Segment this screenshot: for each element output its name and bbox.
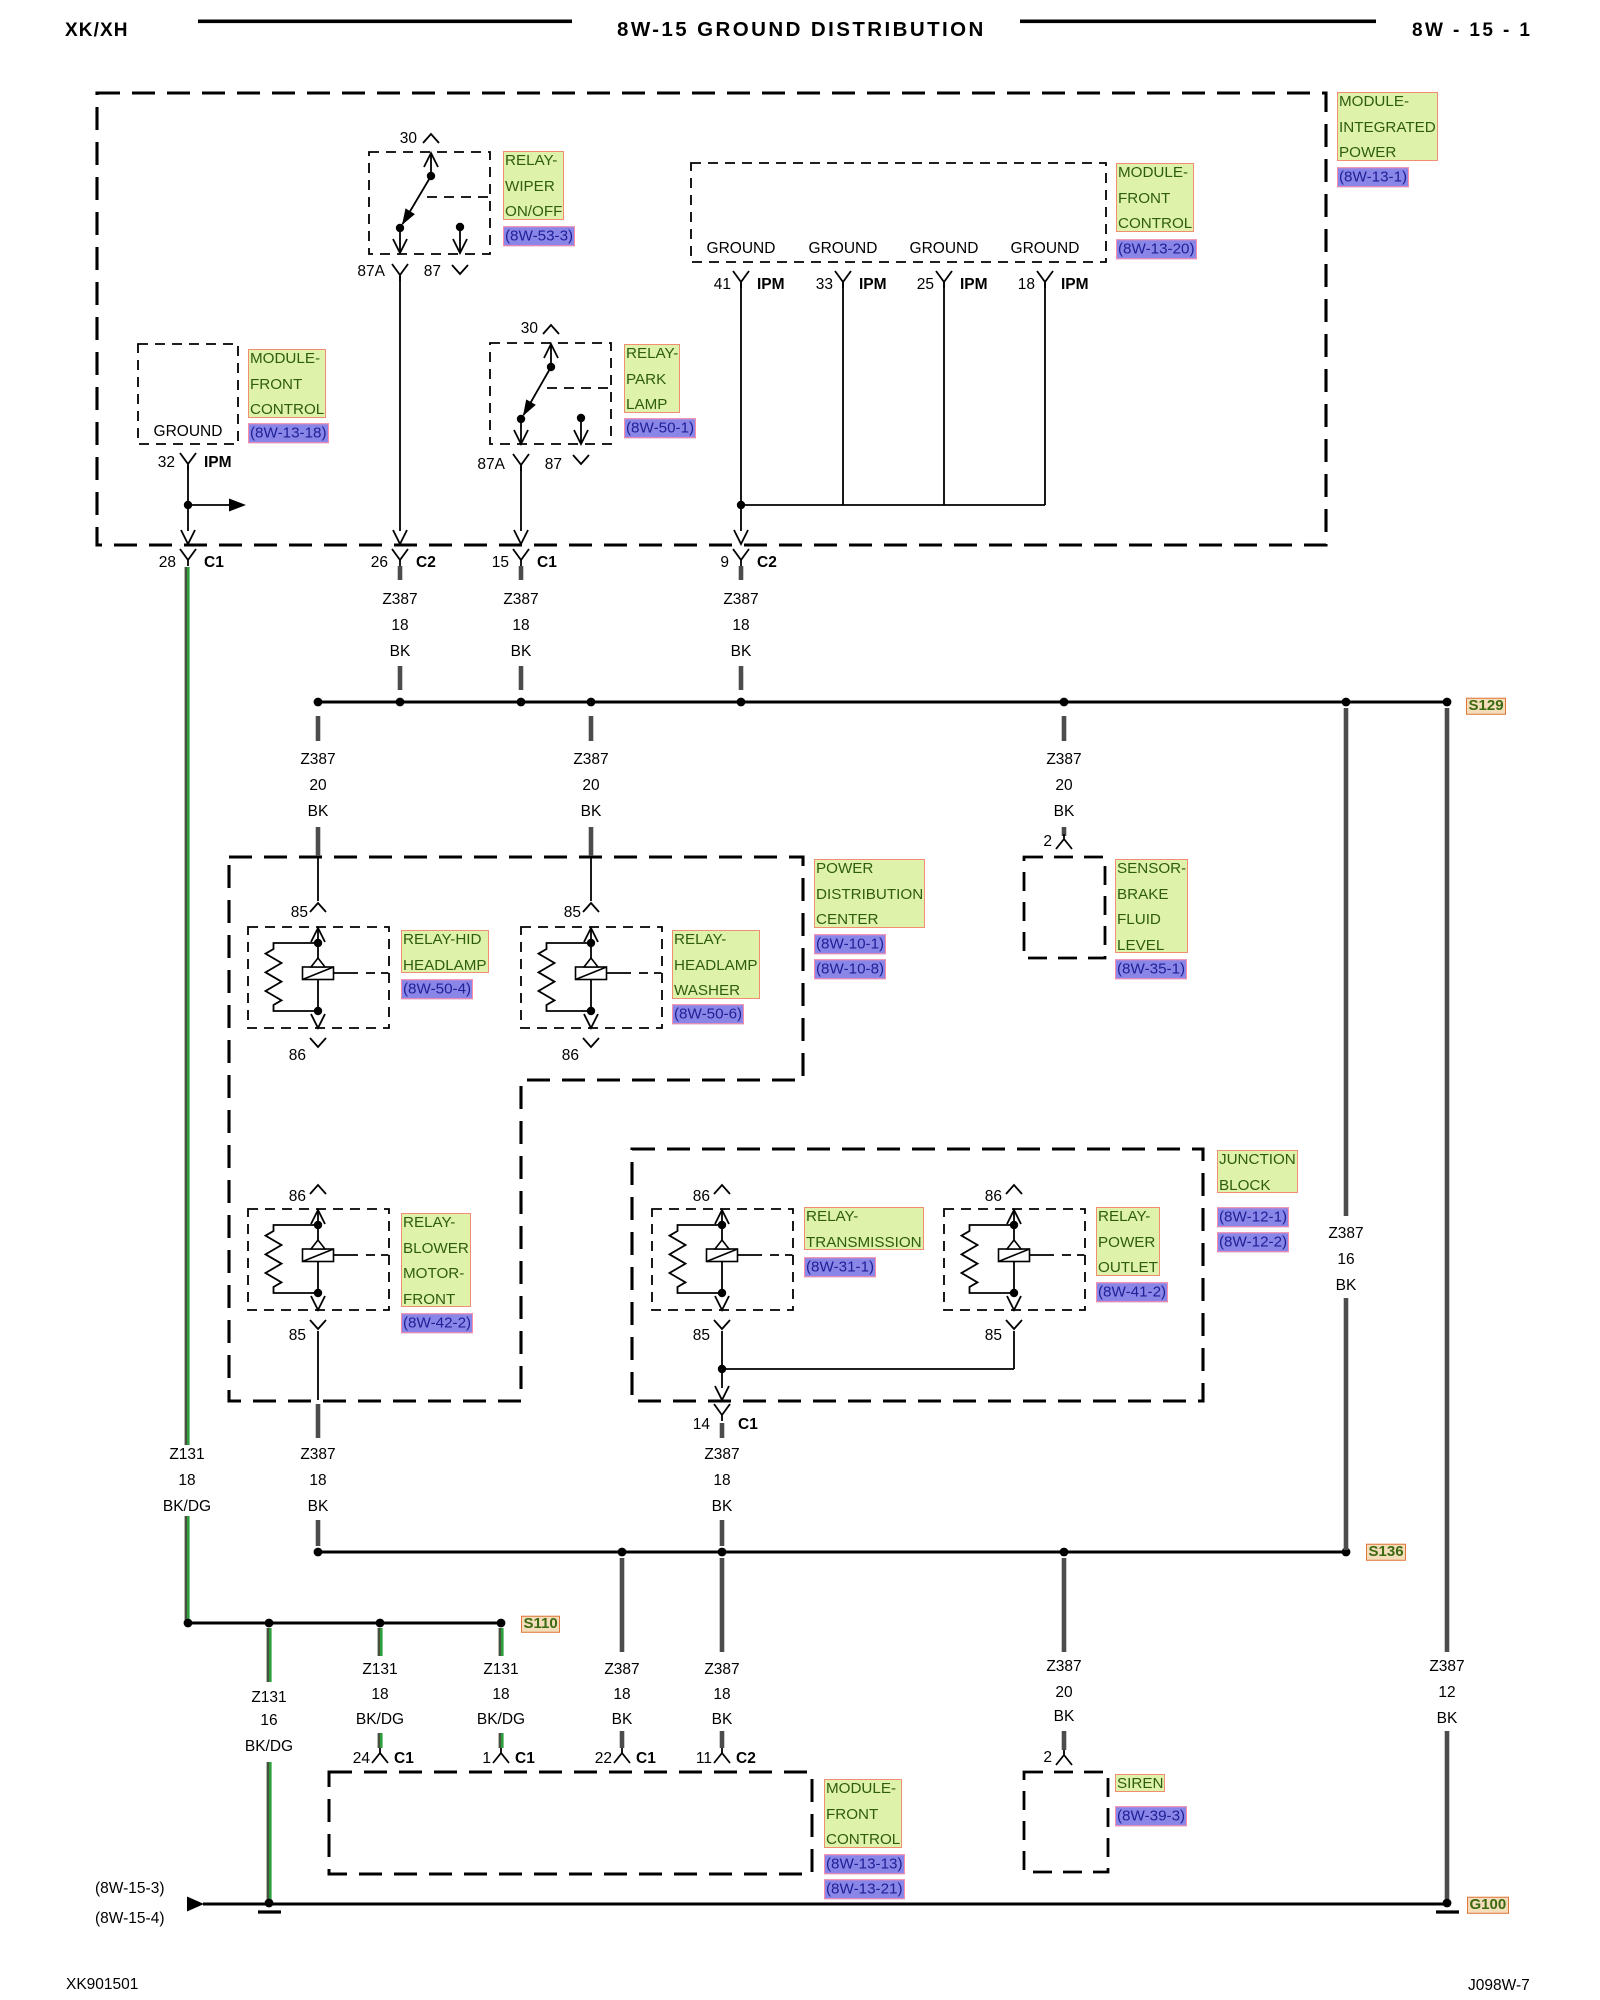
module-integrated power outer dashed box <box>97 93 1326 545</box>
header title <box>617 18 986 42</box>
pin 85 label (blower) <box>289 1327 306 1345</box>
wire label Z387 18 BK x722 <box>704 1446 739 1464</box>
reference 8W-12-1 <box>1217 1207 1289 1227</box>
wire stub x318 to PDC <box>316 827 321 856</box>
module-front control 8W-13-18 dashed box <box>138 344 238 444</box>
wire label Z387 20 BK x=318 <box>300 751 335 769</box>
connector C1 label (22) <box>636 1750 656 1768</box>
relay coil internals <box>311 928 325 942</box>
wire below S136 x1064 <box>1062 1558 1067 1652</box>
pin 41 label <box>714 276 731 294</box>
junction dot S129 x=1447 <box>1443 698 1452 707</box>
relay-transmission dashed box <box>652 1209 793 1310</box>
branch wire to right with arrow <box>188 504 230 506</box>
connector C2 label <box>416 554 436 572</box>
pin 87 label (park) <box>545 456 562 474</box>
pin 22 label <box>595 1750 612 1768</box>
connector 9 C2 <box>733 549 741 560</box>
sensor-brake fluid level dashed box <box>1024 857 1105 958</box>
relay coil internals <box>715 1210 729 1224</box>
label module-front control 18 <box>248 349 326 418</box>
wire Z387 12 BK lower segment <box>1445 1731 1450 1899</box>
wire Z131 18 BK/DG lower segment <box>185 1516 187 1621</box>
IPM label (18) <box>1061 276 1089 294</box>
wire power outlet 85 down <box>1013 1331 1015 1369</box>
wire pin32 down to C1 exit <box>187 466 189 531</box>
junction dot S129 x=591 <box>587 698 596 707</box>
GROUND text (8W-13-18) <box>154 423 223 441</box>
wire to 14 C1 exit <box>721 1369 723 1388</box>
pin 85 chevron (transmission) <box>714 1320 730 1329</box>
pin 33 label <box>816 276 833 294</box>
pin 9 label <box>720 554 729 572</box>
splice label S129 <box>1466 698 1506 715</box>
wire stub x591 to PDC <box>589 827 594 856</box>
header rule right <box>1020 20 1376 24</box>
ground line to G100 <box>203 1903 1447 1906</box>
ground bar x269 <box>258 1910 281 1913</box>
wire Z387 12 BK upper segment <box>1445 708 1450 1652</box>
label module-front control 13 <box>824 1779 902 1848</box>
pin 2 connector (sensor) <box>1063 834 1065 840</box>
wire label Z387 18 BK x=400 <box>382 591 417 609</box>
reference 8W-13-18 <box>248 423 329 443</box>
wire Z131 16 BK/DG upper <box>267 1628 269 1682</box>
connector C2 label (11) <box>736 1750 756 1768</box>
wire below S136 x622 <box>620 1558 625 1652</box>
pin 85 chevron (washer) <box>583 903 599 912</box>
reference 8W-10-1 <box>814 934 886 954</box>
pin 24 label <box>353 1750 370 1768</box>
wire ground 25 down <box>943 283 945 505</box>
connector 14 C1 <box>714 1404 722 1415</box>
wire label Z387 18 BK x=741 <box>723 591 758 609</box>
off-page arrow to 8W-15-3/4 <box>187 1897 204 1912</box>
pin 87A connector (park) <box>513 454 521 465</box>
module-front control 8W-13-13 dashed box <box>329 1772 812 1874</box>
reference 8W-31-1 <box>804 1257 876 1277</box>
pin 11 label <box>696 1750 712 1768</box>
pin 85 label (hid) <box>291 904 308 922</box>
footer drawing number <box>66 1976 138 1994</box>
IPM label (32) <box>204 454 232 472</box>
pin 86 label (washer) <box>562 1047 579 1065</box>
wire ground 41 down to C2 exit <box>740 283 742 531</box>
pin 30 connector chevron (park) <box>543 325 559 334</box>
pin 28 label <box>159 554 176 572</box>
wire label Z131 18 BK/DG x501 <box>483 1661 518 1679</box>
wire transmission 85 down <box>721 1331 723 1369</box>
label relay-blower motor-front <box>401 1213 471 1307</box>
splice label S110 <box>521 1616 560 1633</box>
pin 30 label (park) <box>521 320 538 338</box>
label sensor-brake fluid level <box>1115 859 1188 953</box>
reference 8W-10-8 <box>814 959 886 979</box>
wire stub x1064 to sensor <box>1062 827 1067 836</box>
splice S129 bus <box>318 701 1447 704</box>
GROUND text pin 41 <box>707 240 776 258</box>
relay coil internals <box>584 928 598 942</box>
connector C1 label <box>537 554 557 572</box>
header XK/XH <box>65 20 129 42</box>
wire label Z131 18 BK/DG x380 <box>362 1661 397 1679</box>
pin 87A connector (wiper) <box>392 264 400 275</box>
label relay-headlamp washer <box>672 930 760 999</box>
junction dot S129 x=318 <box>314 698 323 707</box>
pin 15 label <box>492 554 509 572</box>
reference 8W-50-6 <box>672 1004 744 1024</box>
label siren <box>1115 1774 1165 1792</box>
siren dashed box <box>1024 1772 1108 1872</box>
reference 8W-13-13 <box>824 1854 905 1874</box>
pin 87 label (wiper) <box>424 263 441 281</box>
reference 8W-13-1 <box>1337 167 1409 187</box>
wire stub below S129 x1064 <box>1062 716 1067 741</box>
pin 18 label <box>1018 276 1035 294</box>
wire label Z387 12 BK x1447 <box>1429 1658 1464 1676</box>
wire label Z131 18 BK/DG x187 <box>169 1446 204 1464</box>
ground pin 33 IPM connector <box>835 271 843 282</box>
relay coil-switch internals <box>424 153 438 167</box>
IPM label (25) <box>960 276 988 294</box>
relay-blower motor-front dashed box <box>248 1209 389 1310</box>
header rule left <box>198 20 572 24</box>
junction dot S129 x=521 <box>517 698 526 707</box>
junction dot S136 x=1346 <box>1342 1548 1351 1557</box>
wire Z131 x380 upper stub <box>378 1628 380 1656</box>
junction dot S110 x=188 <box>184 1619 193 1628</box>
reference 8W-53-3 <box>503 226 575 246</box>
IPM label (41) <box>757 276 785 294</box>
wire label Z387 18 BK x=521 <box>503 591 538 609</box>
pin 25 label <box>917 276 934 294</box>
reference 8W-13-21 <box>824 1879 905 1899</box>
connector 28 C1 <box>180 549 188 560</box>
connector C1 label (24) <box>394 1750 414 1768</box>
connector C1 label <box>204 554 224 572</box>
label module-integrated power <box>1337 92 1438 161</box>
relay-headlamp washer dashed box <box>521 927 662 1028</box>
relay coil internals <box>311 1210 325 1224</box>
pin 32 label <box>158 454 175 472</box>
wire stub above S129 at x741 <box>739 666 744 690</box>
wire stub below 14 C1 <box>720 1423 725 1438</box>
wire label Z387 20 BK x=1064 <box>1046 751 1081 769</box>
wire ground 18 down <box>1044 283 1046 505</box>
wire Z131 x380 lower stub <box>378 1733 380 1748</box>
wire stub above 11 C2 <box>720 1731 725 1748</box>
label relay-transmission <box>804 1207 924 1250</box>
wire Z131 18 BK/DG from 28 C1 <box>185 567 187 1445</box>
label relay-hid headlamp <box>401 930 489 973</box>
relay-wiper on/off dashed box <box>369 152 490 254</box>
pin 87A label (wiper) <box>357 263 385 281</box>
connector 22 C1 <box>621 1748 623 1754</box>
pin 86 chevron (hid) <box>310 1038 326 1047</box>
reference 8W-41-2 <box>1096 1282 1168 1302</box>
wire Z387 16 BK upper segment <box>1344 708 1349 1216</box>
label relay-wiper on/off <box>503 151 564 220</box>
wire into relay-hid headlamp <box>317 857 319 901</box>
ground pin 18 IPM connector <box>1037 271 1045 282</box>
wire stub 15 C1 <box>519 566 524 580</box>
wire stub above S136 x722 <box>720 1520 725 1546</box>
wire stub above S129 at x521 <box>519 666 524 690</box>
reference 8W-12-2 <box>1217 1232 1289 1252</box>
junction dot S129 x=400 <box>396 698 405 707</box>
pin 86 label (blower) <box>289 1188 306 1206</box>
reference 8W-50-1 <box>624 418 696 438</box>
junction dot S110 x=501 <box>497 1619 506 1628</box>
GROUND text pin 18 <box>1011 240 1080 258</box>
junction dot S129 x=741 <box>737 698 746 707</box>
wire Z131 x501 upper stub <box>499 1628 501 1656</box>
wire stub 9 C2 <box>739 566 744 580</box>
pin 87A label (park) <box>477 456 505 474</box>
pin 85 label (transmission) <box>693 1327 710 1345</box>
wire label Z387 16 BK x1346 <box>1328 1225 1363 1243</box>
wire stub 26 C2 <box>398 566 403 580</box>
wire Z387 16 BK lower segment <box>1344 1298 1349 1550</box>
connector C2 label <box>757 554 777 572</box>
junction dot S129 x=1064 <box>1060 698 1069 707</box>
connector 24 C1 <box>379 1748 381 1754</box>
pin 87 connector chevron (park) <box>573 455 589 464</box>
reference 8W-42-2 <box>401 1313 473 1333</box>
relay coil internals <box>1007 1210 1021 1224</box>
pin 85 label (power outlet) <box>985 1327 1002 1345</box>
wire 87A to C2 exit <box>399 276 401 531</box>
connector C1 label (1) <box>515 1750 535 1768</box>
pin 86 chevron (washer) <box>583 1038 599 1047</box>
ground pin 41 IPM connector <box>733 271 741 282</box>
pin 85 chevron (hid) <box>310 903 326 912</box>
splice S136 bus <box>318 1551 1346 1554</box>
pin 86 chevron (power outlet) <box>1006 1185 1022 1194</box>
junction dot S110 x=269 <box>265 1619 274 1628</box>
pin 86 chevron (blower) <box>310 1185 326 1194</box>
wire stub below S129 x318 <box>316 716 321 741</box>
junction dot S136 x=622 <box>618 1548 627 1557</box>
junction dot ground x269 <box>265 1899 274 1908</box>
reference 8W-39-3 <box>1115 1806 1187 1826</box>
relay-power outlet dashed box <box>944 1209 1085 1310</box>
connector 15 C1 <box>513 549 521 560</box>
reference 8W-35-1 <box>1115 959 1187 979</box>
wire label Z387 20 BK x=591 <box>573 751 608 769</box>
pin 2 label (sensor) <box>1043 833 1052 851</box>
wire 87A to C1 exit <box>520 466 522 531</box>
pin 2 connector (siren) <box>1063 1750 1065 1756</box>
reference 8W-13-20 <box>1116 239 1197 259</box>
splice S110 bus <box>188 1622 501 1625</box>
wire stub above 22 C1 <box>620 1731 625 1748</box>
pin 85 label (washer) <box>564 904 581 922</box>
GROUND text pin 25 <box>910 240 979 258</box>
label module-front control 20 <box>1116 163 1194 232</box>
pin 2 label (siren) <box>1043 1749 1052 1767</box>
wire into relay-headlamp washer <box>590 857 592 901</box>
junction block dashed box <box>632 1149 1203 1401</box>
wire blower 85 to PDC edge <box>317 1331 319 1400</box>
splice label G100 <box>1467 1897 1509 1914</box>
ground pin 25 IPM connector <box>936 271 944 282</box>
wire label Z131 16 BK/DG x269 <box>251 1689 286 1707</box>
wire stub above S136 x318 <box>316 1520 321 1546</box>
wire stub below blower relay <box>316 1404 321 1438</box>
wire label Z387 18 BK bottom x722 <box>704 1661 739 1679</box>
pin 14 label <box>693 1416 710 1434</box>
wire ground 33 down <box>842 283 844 505</box>
splice label S136 <box>1366 1544 1406 1561</box>
wire stub above S129 at x400 <box>398 666 403 690</box>
footer sheet number <box>1468 1977 1530 1995</box>
relay coil-switch internals <box>544 344 558 358</box>
wire joining relay 85 pins <box>722 1368 1014 1370</box>
junction dot S129 x=1346 <box>1342 698 1351 707</box>
GROUND text pin 33 <box>809 240 878 258</box>
pin 26 label <box>371 554 388 572</box>
label junction block <box>1217 1150 1298 1193</box>
ground bus join wire <box>741 504 1045 506</box>
junction dot S110 x=380 <box>376 1619 385 1628</box>
off-page reference 8W-15-3 <box>95 1880 164 1898</box>
power distribution center dashed outline <box>229 857 803 1401</box>
wire Z131 16 BK/DG lower <box>267 1762 269 1900</box>
header page number <box>1412 20 1532 42</box>
connector 11 C2 <box>721 1748 723 1754</box>
pin 86 label (hid) <box>289 1047 306 1065</box>
label relay-park lamp <box>624 344 680 413</box>
wire label Z387 20 BK x1064 <box>1046 1658 1081 1676</box>
connector C1 label (14) <box>738 1416 758 1434</box>
wire Z131 x501 lower stub <box>499 1733 501 1748</box>
pin 86 label (power outlet) <box>985 1188 1002 1206</box>
wire stub above siren pin 2 <box>1062 1731 1067 1750</box>
wire label Z387 18 BK x318 <box>300 1446 335 1464</box>
wire below S136 x722 <box>720 1558 725 1652</box>
junction dot S136 x=722 <box>718 1548 727 1557</box>
module-front control 8W-13-20 dashed box <box>691 163 1106 262</box>
pin 32 IPM connector <box>180 453 188 464</box>
pin 30 connector chevron (wiper) <box>423 134 439 143</box>
connector 26 C2 <box>392 549 400 560</box>
connector 1 C1 <box>500 1748 502 1754</box>
reference 8W-50-4 <box>401 979 473 999</box>
wire stub below S129 x591 <box>589 716 594 741</box>
pin 86 label (transmission) <box>693 1188 710 1206</box>
pin 85 chevron (power outlet) <box>1006 1320 1022 1329</box>
wire label Z387 18 BK x622 <box>604 1661 639 1679</box>
pin 1 label <box>482 1750 491 1768</box>
label power distribution center <box>814 859 925 928</box>
IPM label (33) <box>859 276 887 294</box>
pin 85 chevron (blower) <box>310 1320 326 1329</box>
junction dot ground x1447 <box>1443 1899 1452 1908</box>
junction dot S136 x=318 <box>314 1548 323 1557</box>
pin 87 connector chevron (wiper) <box>452 265 468 274</box>
off-page reference 8W-15-4 <box>95 1910 164 1928</box>
pin 30 label (wiper) <box>400 130 417 148</box>
ground bar x1447 <box>1436 1910 1459 1913</box>
label relay-power outlet <box>1096 1207 1160 1276</box>
relay-park lamp dashed box <box>490 343 611 444</box>
pin 86 chevron (transmission) <box>714 1185 730 1194</box>
junction dot S136 x=1064 <box>1060 1548 1069 1557</box>
relay-hid headlamp dashed box <box>248 927 389 1028</box>
wire exit arrow at box edge <box>181 530 195 544</box>
